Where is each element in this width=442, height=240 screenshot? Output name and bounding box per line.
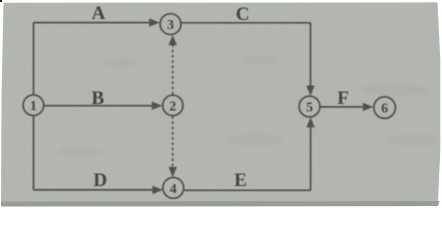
corner scan mark xyxy=(0,0,2,2)
svg-text:F: F xyxy=(337,88,349,109)
arrowhead D into node 4 xyxy=(152,186,163,194)
wire F node5 to node6 xyxy=(320,106,365,108)
wire node1 down to D corner xyxy=(33,116,35,190)
svg-text:3: 3 xyxy=(167,18,174,33)
node 4 circle xyxy=(163,178,184,199)
svg-text:1: 1 xyxy=(30,99,37,114)
svg-text:2: 2 xyxy=(169,99,176,114)
svg-text:C: C xyxy=(236,4,250,25)
svg-text:D: D xyxy=(93,170,107,191)
dashed dummy activity node2 to node4 xyxy=(172,116,174,169)
arrowhead C into node 5 xyxy=(306,86,314,96)
wire D horizontal xyxy=(34,189,155,191)
wire C horizontal from node 3 xyxy=(181,22,311,24)
svg-text:E: E xyxy=(234,170,247,191)
node 5 circle xyxy=(299,96,320,117)
bottom scan shadow band xyxy=(1,201,440,207)
wire node1 to A corner (vertical) xyxy=(33,23,35,95)
wire B node1 to node2 xyxy=(44,105,154,107)
arrowhead dashed into node 4 xyxy=(169,167,177,177)
arrowhead B into node 2 xyxy=(152,102,163,110)
wire E vertical up to node 5 xyxy=(310,126,312,191)
wire C vertical down to node 5 xyxy=(310,23,312,88)
arrowhead dashed into node 3 xyxy=(169,35,177,45)
node 1 circle xyxy=(23,95,44,116)
wire E horizontal from node 4 xyxy=(184,189,311,191)
arrowhead A into node 3 xyxy=(149,18,160,26)
dashed dummy activity node2 to node3 xyxy=(172,44,174,94)
wire A horizontal xyxy=(34,22,152,24)
svg-text:A: A xyxy=(92,3,106,24)
node 3 circle xyxy=(160,14,181,35)
arrowhead E into node 5 xyxy=(306,117,314,127)
svg-text:B: B xyxy=(91,88,104,109)
arrowhead F into node 6 xyxy=(363,103,374,111)
node 2 circle xyxy=(163,95,183,115)
node 6 circle xyxy=(374,97,396,119)
svg-text:6: 6 xyxy=(381,102,388,117)
svg-text:5: 5 xyxy=(306,100,313,115)
svg-text:4: 4 xyxy=(170,182,177,197)
